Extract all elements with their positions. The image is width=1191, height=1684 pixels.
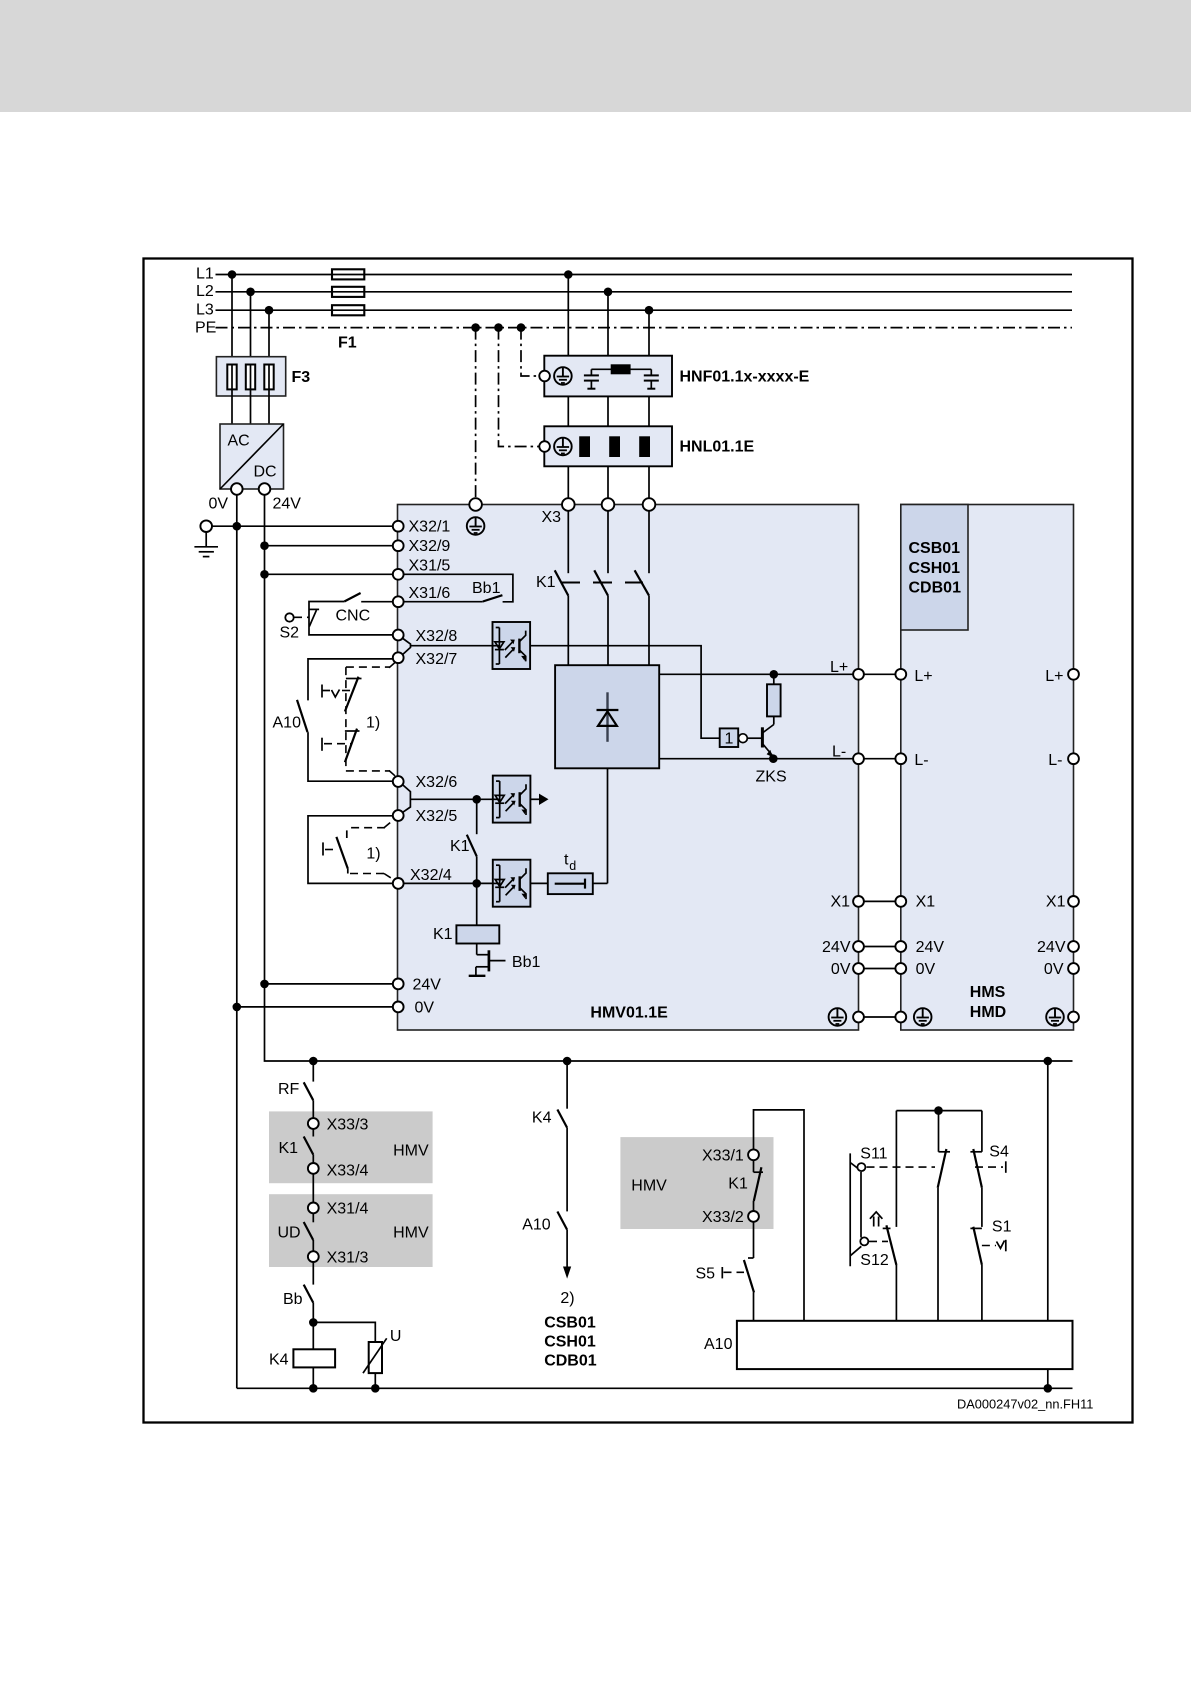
wire Bb to K4 coil: [312, 1303, 314, 1350]
svg-text:1: 1: [725, 731, 734, 748]
svg-text:HMV01.1E: HMV01.1E: [590, 1005, 668, 1022]
svg-text:F3: F3: [292, 369, 311, 386]
contact K4: [557, 1110, 567, 1128]
svg-text:0V: 0V: [831, 961, 851, 978]
S1 dashed linkage with v: [982, 1240, 1006, 1252]
wire left branch (S12) upper: [895, 1111, 897, 1227]
svg-text:0V: 0V: [916, 961, 936, 978]
wire X31/3 to Bb: [312, 1262, 314, 1285]
svg-text:X32/1: X32/1: [409, 519, 451, 536]
terminal X1 (HMV right): [853, 896, 864, 907]
svg-text:X1: X1: [916, 894, 936, 911]
terminal PE (HMV right): [853, 1012, 864, 1023]
wire opto1 output: [530, 646, 720, 739]
svg-text:UD: UD: [278, 1225, 301, 1242]
svg-text:HMV: HMV: [393, 1143, 429, 1160]
svg-text:X32/8: X32/8: [416, 628, 458, 645]
terminal 24V (HMV left): [393, 979, 404, 990]
svg-text:CSH01: CSH01: [544, 1334, 596, 1351]
svg-text:1): 1): [366, 846, 380, 863]
terminal 0V (far right): [1068, 963, 1079, 974]
svg-text:S11: S11: [860, 1146, 887, 1163]
wire HNF to HNL pole 3: [648, 396, 650, 426]
optocoupler U3: [493, 860, 531, 907]
svg-text:t: t: [564, 852, 569, 869]
terminal X31/3: [308, 1251, 319, 1262]
svg-text:F1: F1: [338, 335, 357, 352]
svg-text:Bb: Bb: [283, 1291, 303, 1308]
wire X1 link: [864, 900, 896, 902]
svg-text:Bb1: Bb1: [472, 580, 501, 597]
svg-text:K1: K1: [279, 1140, 299, 1157]
node PE tap 3: [517, 323, 526, 332]
contactor K1 main contact 3: [635, 570, 649, 595]
relay coil K1: [456, 925, 499, 943]
svg-text:L-: L-: [914, 752, 928, 769]
wire HNF to HNL pole 2: [607, 396, 609, 426]
node 24V rail / S-group branch: [1044, 1057, 1053, 1066]
wire L1: [216, 274, 1073, 276]
contact RF: [304, 1082, 314, 1100]
svg-text:S2: S2: [280, 625, 300, 642]
varistor U: [363, 1338, 387, 1373]
interlock contact 1a: [322, 677, 362, 712]
S2 actuator tick: [309, 609, 319, 626]
contact K1 (aux, vertical): [467, 799, 477, 883]
terminal 24V of AC/DC: [259, 483, 271, 495]
node 24V rail / K4 branch: [563, 1057, 572, 1066]
wire branch to varistor: [313, 1322, 375, 1342]
wire X31/6 to CNC contact: [361, 601, 393, 603]
contact UD: [304, 1222, 314, 1240]
node L- / transistor: [769, 754, 778, 763]
wire bracket to optocoupler: [411, 645, 493, 647]
svg-text:L-: L-: [1048, 752, 1062, 769]
svg-text:HMD: HMD: [970, 1004, 1006, 1021]
node 0V tap: [233, 1003, 242, 1012]
AC/DC converter: [220, 424, 284, 489]
svg-text:A10: A10: [704, 1336, 733, 1353]
svg-text:S5: S5: [696, 1266, 716, 1283]
terminal X32/6: [393, 776, 404, 787]
wire resistor to L+: [773, 674, 775, 684]
relay coil K4: [293, 1349, 335, 1367]
fuse F1 pole 3: [332, 305, 364, 315]
S5 actuator tick and dashes: [722, 1267, 744, 1278]
wire X3-3 to K1 contact: [648, 511, 650, 573]
gray box RF/K1 (HMV X33): [269, 1111, 433, 1183]
choke (black) in HNF: [591, 364, 651, 374]
svg-text:S4: S4: [989, 1144, 1009, 1161]
wire 24V rail down: [265, 495, 1073, 1061]
terminal X32/8: [393, 630, 404, 641]
contact A10 (middle branch): [557, 1212, 567, 1230]
wire contact2 to rectifier: [607, 596, 609, 666]
gray box UD (HMV X31): [269, 1194, 433, 1267]
wire L- bus: [659, 758, 853, 760]
svg-text:DC: DC: [254, 464, 277, 481]
terminal X32/7: [393, 652, 404, 663]
spring return symbol (double arrow up): [870, 1212, 883, 1227]
rectifier bridge: [555, 665, 659, 768]
diode symbol in rectifier: [597, 692, 619, 742]
wire L1 drop to F3: [231, 275, 233, 365]
node K4/0V rail: [309, 1384, 318, 1393]
PE symbol in HNF: [554, 367, 572, 385]
interlock contact 2: [323, 830, 348, 873]
terminal X32/4: [393, 878, 404, 889]
node Bb/U branch: [309, 1318, 318, 1327]
contact middle (S11 linked): [938, 1149, 950, 1321]
node opto2/K1 junction: [472, 795, 481, 804]
terminal X1 (HMS left): [895, 896, 906, 907]
svg-text:HMV: HMV: [393, 1225, 429, 1242]
PE symbol (HMV bottom): [829, 1008, 847, 1026]
wire L3 drop to F3: [268, 310, 270, 364]
svg-text:A10: A10: [522, 1217, 551, 1234]
svg-text:L3: L3: [196, 302, 214, 319]
wire X32/5 to box2: [308, 816, 393, 884]
wire rectifier center down to td loop: [607, 768, 609, 883]
fuse F3 pole 3: [264, 365, 273, 390]
svg-text:K1: K1: [536, 574, 556, 591]
wire HNL to X3 pole 3: [648, 466, 650, 498]
optocoupler U2: [493, 776, 531, 823]
arrow to drive controllers: [563, 1267, 571, 1279]
node 24V tap: [260, 980, 269, 989]
wire 24V to X32/9: [265, 545, 393, 547]
wire A10 box to 0V rail: [1047, 1369, 1049, 1388]
S11 linkage end stop: [1005, 1161, 1007, 1173]
wire PE drop to HNF (dash-dot): [521, 328, 539, 376]
terminal 0V (HMS left): [895, 963, 906, 974]
wire right branch (S4/S1) upper: [981, 1111, 983, 1152]
ground symbol: [194, 532, 218, 557]
terminal 0V (HMV right): [853, 963, 864, 974]
terminal X1 (far right): [1068, 896, 1079, 907]
wire HNL to X3 pole 2: [607, 466, 609, 498]
svg-text:CSB01: CSB01: [909, 540, 961, 557]
PE symbol in HNL: [554, 438, 572, 456]
svg-text:HNL01.1E: HNL01.1E: [680, 439, 755, 456]
wire X3-1 to K1 contact: [567, 511, 569, 573]
wire X31/4 to UD: [312, 1213, 314, 1222]
node L1 feeder tap: [564, 270, 573, 279]
svg-text:A10: A10: [273, 715, 302, 732]
gray box K1 (HMV X33/1-2): [620, 1137, 773, 1229]
wire L1 feeder to HNF: [567, 275, 569, 356]
PE symbol inside HMV: [467, 517, 485, 535]
wire L3: [216, 309, 1073, 311]
svg-text:K1: K1: [450, 838, 470, 855]
capacitor C2 in HNF: [644, 369, 659, 388]
node S-group middle: [934, 1106, 943, 1115]
wire L+ bus: [659, 673, 853, 675]
wire ground to X32/1: [212, 525, 393, 527]
terminal X33/3: [308, 1118, 319, 1129]
S2 dashed link: [294, 616, 309, 618]
wire RF branch stub: [312, 1061, 314, 1082]
svg-text:K4: K4: [532, 1110, 552, 1127]
time delay td box: [548, 873, 593, 894]
switch S12 circle: [860, 1237, 868, 1245]
wire L2: [216, 291, 1073, 293]
inverter gate box 1: [720, 728, 739, 747]
dashed box 1) upper: [346, 662, 396, 776]
wire X32/8-X32/7 bracket: [403, 639, 411, 655]
svg-text:X31/3: X31/3: [327, 1250, 369, 1267]
node PE tap 1: [471, 323, 480, 332]
node 24V/X32-9: [260, 541, 269, 550]
svg-text:X1: X1: [831, 894, 851, 911]
svg-text:1): 1): [366, 715, 380, 732]
svg-text:2): 2): [560, 1290, 574, 1307]
contact Bb: [304, 1285, 314, 1303]
contact K1 (X33): [304, 1137, 314, 1155]
wire A10 to arrow: [566, 1230, 568, 1268]
svg-text:24V: 24V: [916, 939, 945, 956]
svg-text:L1: L1: [196, 266, 214, 283]
wire middle branch upper: [938, 1111, 940, 1152]
node L2 feeder tap: [604, 288, 613, 297]
node X32/4 branch: [472, 879, 481, 888]
wire 0V to HMV: [237, 1006, 393, 1008]
svg-text:X32/5: X32/5: [416, 808, 458, 825]
terminal X31/5: [393, 569, 404, 580]
svg-text:X31/6: X31/6: [409, 585, 451, 602]
wire X3-2 to K1 contact: [607, 511, 609, 573]
wire X31/5 to Bb1: [404, 574, 513, 602]
mains choke HNL01.1E: [539, 426, 672, 466]
wire UD to X31/3: [312, 1240, 314, 1251]
terminal X33/4: [308, 1163, 319, 1174]
node L3 tap: [265, 306, 274, 315]
svg-text:24V: 24V: [413, 977, 442, 994]
wire opto2 output arrow: [530, 794, 548, 805]
key switch mechanical bracket: [850, 1153, 861, 1266]
mains filter HNF01.1x-xxxx-E: [539, 356, 672, 397]
svg-text:X32/6: X32/6: [416, 774, 458, 791]
transistor ZKS: [747, 716, 774, 757]
svg-text:U: U: [390, 1328, 402, 1345]
wire contact1 to rectifier: [567, 596, 569, 666]
interlock contact 1b: [322, 729, 360, 763]
terminal 0V (HMV left): [393, 1002, 404, 1013]
PE symbol (far right bottom): [1046, 1008, 1064, 1026]
svg-text:S1: S1: [992, 1219, 1012, 1236]
svg-text:0V: 0V: [415, 1000, 435, 1017]
node L1 tap: [228, 270, 237, 279]
fuse F3 pole 1: [227, 365, 236, 390]
top gray band: [0, 0, 1191, 112]
fuse block F3: [216, 357, 285, 396]
wire L2 feeder to HNF: [607, 292, 609, 356]
wire opto3 to td: [530, 882, 547, 884]
choke bar 2: [609, 436, 620, 457]
svg-text:X33/3: X33/3: [327, 1117, 369, 1134]
wire RF to X33/3: [312, 1100, 314, 1118]
svg-text:L-: L-: [832, 744, 846, 761]
svg-text:CDB01: CDB01: [909, 579, 962, 596]
terminal X3 L2: [602, 498, 615, 511]
wire varistor to 0V rail: [374, 1373, 376, 1388]
relay module A10: [737, 1321, 1073, 1369]
contact A10: [297, 700, 308, 732]
wire X33/1 top loop: [754, 1110, 805, 1321]
terminal L+ (HMS left): [895, 669, 906, 680]
svg-text:PE: PE: [195, 320, 216, 337]
S11 dashed linkage: [867, 1166, 1004, 1168]
wire PE link: [864, 1016, 896, 1018]
svg-text:24V: 24V: [822, 939, 851, 956]
wire S-group feed drop: [1047, 1061, 1049, 1321]
terminal PE (HMS left): [895, 1012, 906, 1023]
svg-text:CNC: CNC: [336, 608, 371, 625]
wire PE drop to HMV ground terminal (dash-dot): [475, 328, 477, 498]
wire 0V link: [864, 968, 896, 970]
svg-text:0V: 0V: [1044, 961, 1064, 978]
svg-text:CDB01: CDB01: [544, 1353, 597, 1370]
svg-text:K1: K1: [728, 1176, 748, 1193]
wire CNC loop to X32/8: [309, 602, 393, 635]
wire F3 to AC/DC pole 3: [268, 389, 270, 424]
terminal X3 L1: [562, 498, 575, 511]
wire td to rectifier riser: [593, 882, 608, 884]
optocoupler U1: [493, 622, 531, 669]
fuse F1 pole 2: [332, 287, 364, 297]
svg-text:X33/1: X33/1: [702, 1148, 744, 1165]
svg-text:AC: AC: [228, 433, 250, 450]
wire HNL to X3 pole 1: [567, 466, 569, 498]
svg-text:Bb1: Bb1: [512, 954, 541, 971]
svg-text:X32/4: X32/4: [410, 867, 452, 884]
wire X33/3 to K1 contact: [312, 1129, 314, 1137]
wire 24V link: [864, 946, 896, 948]
svg-text:X33/4: X33/4: [327, 1163, 369, 1180]
terminal PE on HMV top: [469, 498, 482, 511]
terminal 0V of AC/DC: [231, 483, 243, 495]
terminal X32/5: [393, 810, 404, 821]
node L2 tap: [246, 288, 255, 297]
wire F3 to AC/DC pole 2: [250, 389, 252, 424]
svg-text:CSH01: CSH01: [909, 560, 961, 577]
terminal L+ (far right): [1068, 669, 1079, 680]
node 24V/X31-5: [260, 570, 269, 579]
terminal L- (far right): [1068, 753, 1079, 764]
svg-text:24V: 24V: [273, 496, 302, 513]
wire K1 coil feed: [476, 883, 478, 925]
outer frame: [144, 259, 1133, 1423]
wire K4 to A10 contact: [566, 1128, 568, 1212]
terminal X3 L3: [643, 498, 656, 511]
fuse F1 pole 1: [332, 269, 364, 279]
wire S-group top bar: [896, 1110, 982, 1112]
switch S11 circle: [857, 1163, 865, 1171]
wire L+ link: [864, 673, 896, 675]
terminal 24V (HMS left): [895, 941, 906, 952]
svg-text:X32/7: X32/7: [416, 651, 458, 668]
wire X32/7 to A10 contact: [308, 659, 393, 701]
control sections box CSB01/CSH01/CDB01: [901, 505, 968, 631]
svg-text:HMS: HMS: [970, 984, 1006, 1001]
K1 mechanical link (dashed): [561, 582, 643, 584]
switch S2 actuator circle: [285, 613, 293, 621]
fuse F3 pole 2: [246, 365, 255, 390]
svg-text:X1: X1: [1046, 894, 1066, 911]
svg-text:X31/5: X31/5: [409, 558, 451, 575]
svg-text:DA000247v02_nn.FH11: DA000247v02_nn.FH11: [957, 1397, 1093, 1412]
wire F3 to AC/DC pole 1: [231, 389, 233, 424]
svg-text:L+: L+: [830, 659, 848, 676]
wire 24V to X31/5: [265, 573, 393, 575]
wire K4 branch stub: [566, 1061, 568, 1109]
svg-text:24V: 24V: [1037, 939, 1066, 956]
terminal X31/4: [308, 1203, 319, 1214]
terminal L+ (HMV right): [853, 669, 864, 680]
svg-text:HNF01.1x-xxxx-E: HNF01.1x-xxxx-E: [680, 369, 810, 386]
dashed box 1) lower: [350, 820, 394, 880]
contact Bb1: [404, 595, 503, 602]
choke bar 3: [639, 436, 650, 457]
drive controllers block HMS/HMD: [901, 505, 1074, 1031]
svg-text:RF: RF: [278, 1081, 300, 1098]
wire L- link: [864, 758, 896, 760]
svg-text:K1: K1: [433, 926, 453, 943]
svg-text:L+: L+: [914, 668, 932, 685]
wire X32/6-X32/5 bracket: [403, 785, 411, 812]
contactor K1 main contact 1: [555, 570, 569, 595]
wire K4 coil to 0V rail: [312, 1367, 314, 1388]
inverter bubble: [739, 734, 748, 743]
terminal X31/6: [393, 596, 404, 607]
wire 24V to HMV: [265, 983, 393, 985]
svg-text:0V: 0V: [209, 496, 229, 513]
contact S5: [744, 1260, 754, 1293]
terminal PE (far right): [1068, 1012, 1079, 1023]
resistor (bleeder): [767, 684, 781, 716]
svg-text:L2: L2: [196, 283, 214, 300]
svg-text:X33/2: X33/2: [702, 1209, 744, 1226]
terminal X33/1: [748, 1149, 759, 1160]
svg-text:CSB01: CSB01: [544, 1315, 596, 1332]
contact S4: [970, 1149, 982, 1227]
svg-text:HMV: HMV: [631, 1178, 667, 1195]
svg-text:d: d: [569, 859, 576, 873]
node L+ / resistor: [770, 670, 779, 679]
node PE tap 2: [494, 323, 503, 332]
contactor K1 main contact 2: [594, 570, 608, 595]
terminal L- (HMS left): [895, 753, 906, 764]
wire PE (dash-dot): [216, 327, 1073, 329]
wire S5 to A10 box: [753, 1293, 755, 1321]
terminal X32/1: [393, 521, 404, 532]
wire X33/2 to S5: [748, 1222, 754, 1258]
wire 0V bottom rail: [237, 1387, 1073, 1389]
svg-text:X31/4: X31/4: [327, 1201, 369, 1218]
choke bar 1: [579, 436, 590, 457]
node A10/0V rail: [1044, 1384, 1053, 1393]
contact CNC (S2): [344, 593, 360, 602]
contact S12: [883, 1225, 897, 1321]
terminal X33/2: [748, 1211, 759, 1222]
terminal 24V (HMV right): [853, 941, 864, 952]
wire A10 contact to X32/6: [308, 732, 393, 781]
svg-text:X32/9: X32/9: [409, 538, 451, 555]
capacitor C1 in HNF: [584, 369, 599, 388]
contact S1: [970, 1227, 982, 1321]
wire HNF to HNL pole 1: [567, 396, 569, 426]
terminal 24V (far right): [1068, 941, 1079, 952]
